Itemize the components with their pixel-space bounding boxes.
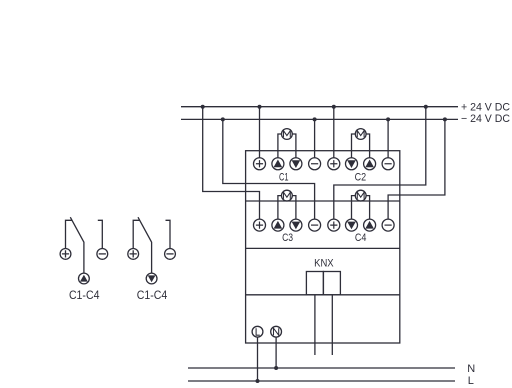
wire C2 plus from +24V rail: [333, 107, 335, 158]
svg-text:KNX: KNX: [314, 257, 334, 269]
junction dot: [332, 105, 336, 109]
svg-text:L: L: [468, 375, 474, 387]
terminal C2 up: [364, 158, 376, 170]
wire C3 plus feed from +24V rail: [203, 107, 260, 219]
terminal C4 plus: [328, 219, 340, 231]
wire L to L line: [257, 337, 259, 381]
wire S2 plus lead: [133, 220, 139, 248]
svg-text:N: N: [467, 363, 475, 375]
motor M (channel C2): [355, 129, 366, 140]
switch blade S1: [70, 217, 84, 273]
svg-text:C4: C4: [355, 232, 367, 244]
wire S1 minus lead: [98, 220, 103, 248]
junction dot: [443, 117, 447, 121]
junction dot: [424, 105, 428, 109]
wire motor M3 loop: [278, 196, 296, 220]
junction dot: [221, 117, 225, 121]
junction dot: [386, 117, 390, 121]
terminal C2 minus: [382, 158, 394, 170]
terminal C3 down: [290, 219, 302, 231]
svg-text:− 24 V DC: − 24 V DC: [461, 113, 510, 125]
actuator device box U1: [246, 151, 400, 343]
terminal C2 down: [346, 158, 358, 170]
terminal S2 down: [146, 273, 157, 284]
wire C4 minus feed from -24V rail: [388, 119, 445, 219]
net L line: [188, 380, 455, 382]
wire KNX bus line 1: [314, 295, 316, 355]
wire motor M2 loop: [352, 134, 370, 158]
terminal C2 plus: [328, 158, 340, 170]
device box section line 3: [246, 294, 400, 296]
device box section line 2: [246, 247, 400, 249]
terminal S1 minus: [97, 249, 108, 260]
wire S1 plus lead: [66, 220, 72, 248]
terminal S1 plus: [60, 249, 71, 260]
wire C1 minus from -24V rail: [314, 119, 316, 157]
net +24V rail: [181, 106, 458, 108]
KNX bus connector block: [306, 272, 323, 295]
wire C4 plus feed from +24V rail: [334, 107, 426, 219]
junction dot: [258, 105, 262, 109]
svg-text:C1-C4: C1-C4: [137, 290, 168, 302]
junction dot: [201, 105, 205, 109]
terminal S2 minus: [165, 249, 176, 260]
terminal C4 up: [364, 219, 376, 231]
wire C2 minus from -24V rail: [387, 119, 389, 157]
wire C3 minus feed from -24V rail: [223, 119, 315, 219]
wire N to N line: [275, 337, 277, 368]
wire motor M4 loop: [352, 196, 370, 220]
terminal C4 down: [346, 219, 358, 231]
junction dot: [274, 366, 278, 370]
net N line: [188, 367, 455, 369]
junction dot: [313, 117, 317, 121]
wire motor M1 loop: [278, 134, 296, 158]
terminal C3 minus: [309, 219, 321, 231]
motor M (channel C1): [282, 129, 293, 140]
terminal S1 up: [79, 273, 90, 284]
terminal C3 plus: [254, 219, 266, 231]
net -24V rail: [181, 118, 458, 120]
wire S2 minus lead: [166, 220, 171, 248]
terminal L: [252, 326, 263, 337]
terminal C1 minus: [309, 158, 321, 170]
device box section line 1: [246, 200, 400, 202]
switch S2 (down button): [128, 217, 176, 302]
wire C1 plus from +24V rail: [259, 107, 261, 158]
svg-text:C3: C3: [282, 232, 293, 244]
terminal C4 minus: [382, 219, 394, 231]
terminal C1 up: [272, 158, 284, 170]
svg-text:C1: C1: [279, 172, 289, 184]
wire KNX bus line 2: [331, 295, 333, 355]
svg-text:C2: C2: [355, 172, 367, 184]
svg-text:+ 24 V DC: + 24 V DC: [461, 102, 510, 114]
motor M (channel C4): [355, 190, 366, 201]
terminal C3 up: [272, 219, 284, 231]
switch S1 (up button): [60, 217, 108, 302]
motor M (channel C3): [282, 190, 293, 201]
switch blade S2: [138, 217, 152, 273]
junction dot: [256, 379, 260, 383]
svg-text:C1-C4: C1-C4: [69, 290, 100, 302]
terminal C1 down: [290, 158, 302, 170]
terminal C1 plus: [254, 158, 266, 170]
terminal S2 plus: [128, 249, 139, 260]
terminal N: [271, 326, 282, 337]
